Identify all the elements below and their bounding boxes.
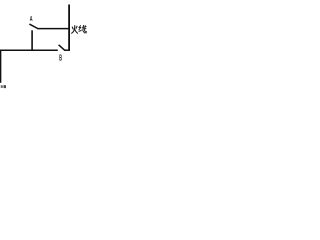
svg-text:B: B [59, 52, 62, 62]
svg-text:A: A [30, 14, 33, 23]
